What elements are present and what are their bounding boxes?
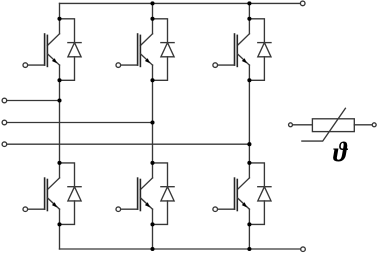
AC phase terminal 2 — [2, 120, 7, 125]
wire: leg 3 upper collector vertical — [248, 3, 250, 33]
gate terminal of Q6 — [213, 207, 218, 212]
bottom DC- bus wire — [60, 248, 301, 250]
diode D1 (freewheel) — [60, 19, 82, 81]
wire: thermistor left lead — [293, 124, 313, 126]
node: top bus / leg3 junction — [247, 1, 251, 5]
diode D2 (freewheel) — [60, 163, 82, 225]
wire: thermistor right lead — [354, 124, 372, 126]
node: leg 1 upper collector junction — [57, 17, 61, 21]
node: leg 3 lower collector junction — [247, 161, 251, 165]
label: theta (temperature sense) — [333, 137, 349, 167]
node: leg 3 upper collector junction — [247, 17, 251, 21]
DC- terminal — [301, 247, 306, 252]
node: leg 1 lower collector junction — [57, 161, 61, 165]
wire: leg 1 lower emitter vertical to bus — [59, 209, 61, 249]
wire: phase 3 output line — [7, 143, 250, 145]
wire: leg 3 midpoint vertical — [248, 65, 250, 178]
AC phase terminal 1 — [2, 98, 7, 103]
wire: leg 1 upper collector vertical — [59, 3, 61, 33]
node: leg 2 lower collector junction — [150, 161, 154, 165]
top DC+ bus wire — [60, 2, 300, 4]
node: top bus / leg2 junction — [150, 1, 154, 5]
node: bottom bus / leg2 junction — [150, 247, 154, 251]
transistor Q4 (IGBT) — [121, 178, 152, 211]
node: leg 1 upper emitter junction — [57, 78, 61, 82]
node: phase 3 tap junction — [247, 142, 251, 146]
node: bottom bus / leg3 junction — [247, 247, 251, 251]
wire: phase 1 output line — [7, 100, 60, 102]
transistor Q6 (IGBT) — [218, 178, 249, 211]
diode D6 (freewheel) — [249, 163, 271, 225]
wire: leg 2 midpoint vertical — [152, 65, 154, 178]
node: phase 1 tap junction — [57, 98, 61, 102]
thermistor R-NTC body — [312, 119, 354, 132]
node: leg 2 upper collector junction — [150, 17, 154, 21]
transistor Q2 (IGBT) — [28, 178, 59, 211]
node: leg 3 lower emitter junction — [247, 222, 251, 226]
thermistor terminal (left) — [289, 123, 293, 127]
wire: leg 3 lower emitter vertical to bus — [248, 209, 250, 249]
diode D3 (freewheel) — [153, 19, 175, 81]
transistor Q1 (IGBT) — [28, 34, 59, 67]
transistor Q3 (IGBT) — [121, 34, 152, 67]
AC phase terminal 3 — [2, 142, 7, 147]
node: leg 3 upper emitter junction — [247, 78, 251, 82]
gate terminal of Q3 — [116, 63, 121, 68]
gate terminal of Q5 — [213, 63, 218, 68]
thermistor variability stroke — [302, 108, 346, 141]
wire: leg 2 upper collector vertical — [152, 3, 154, 33]
transistor Q5 (IGBT) — [218, 34, 249, 67]
node: phase 2 tap junction — [150, 120, 154, 124]
gate terminal of Q2 — [23, 207, 28, 212]
thermistor terminal (right) — [372, 123, 376, 127]
diode D5 (freewheel) — [249, 19, 271, 81]
svg-text:ϑ: ϑ — [333, 137, 349, 167]
diode D4 (freewheel) — [153, 163, 175, 225]
node: leg 2 lower emitter junction — [150, 222, 154, 226]
gate terminal of Q4 — [116, 207, 121, 212]
node: leg 1 lower emitter junction — [57, 222, 61, 226]
DC+ terminal — [300, 1, 305, 6]
node: leg 2 upper emitter junction — [150, 78, 154, 82]
wire: phase 2 output line — [7, 122, 153, 124]
wire: leg 2 lower emitter vertical to bus — [152, 209, 154, 249]
wire: leg 1 midpoint vertical — [59, 65, 61, 178]
gate terminal of Q1 — [23, 63, 28, 68]
